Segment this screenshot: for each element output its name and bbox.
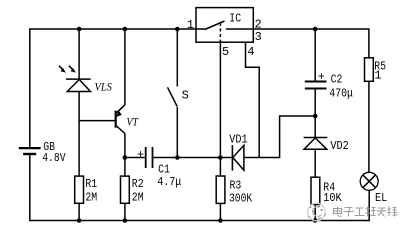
svg-text:+: + [318,70,325,84]
watermark logo [308,203,326,221]
svg-text:VD2: VD2 [330,139,348,153]
IC U1 box [196,8,253,43]
wire VD2 to R4 [314,149,316,177]
IC internal switch [196,21,253,42]
wire C1 right across S and R3 columns [153,157,231,159]
resistor R2 [121,176,130,203]
svg-text:2M: 2M [85,190,97,204]
node C1 right S [175,155,180,160]
wire C2 column top [314,29,316,81]
svg-text:470μ: 470μ [329,86,353,100]
node bottom R4 [313,218,318,223]
transistor VT [79,105,125,134]
wire R4 to bottom rail [314,204,316,220]
svg-text:4.8V: 4.8V [42,151,66,165]
node top VT [123,27,128,32]
capacitor C1 [146,147,153,168]
watermark text dianzi gongcheng zhuanji [334,207,398,217]
svg-text:VD1: VD1 [229,133,247,147]
resistor R1 [75,176,84,203]
svg-text:4: 4 [247,45,254,59]
wire VT collector down to C1 node and R2 [124,133,126,176]
wire R2 to bottom rail [124,203,126,220]
svg-text:IC: IC [229,11,241,25]
svg-text:R2: R2 [132,177,144,191]
wire R5 to lamp [368,81,370,172]
node C2 bottom [313,114,318,119]
svg-text:C2: C2 [331,73,343,87]
wire VD1 right riser to C2 node [244,116,315,158]
wire IC pin5 down to C1 wire [219,42,221,157]
wire top rail right [253,29,369,58]
node top VLS [77,27,82,32]
diode VD1 [232,145,244,171]
wire top rail left [30,29,196,147]
node bottom R2 [123,218,128,223]
node R3 top [218,155,223,160]
svg-text:EL: EL [375,191,387,205]
wire R1 to bottom rail [78,203,80,220]
svg-text:1: 1 [187,18,194,32]
svg-text:S: S [182,89,189,103]
wire R3 top and bottom stubs [219,158,221,221]
svg-text:1: 1 [374,68,381,82]
diode VD2 [304,138,328,150]
node bottom R1 [77,218,82,223]
node bottom R3 [218,218,223,223]
svg-text:4.7μ: 4.7μ [157,175,181,189]
wire VLS to base junction and down to R1 [78,92,80,177]
wire IC pin4 jog down [246,42,260,157]
resistor R4 [311,177,320,204]
resistor R3 [216,176,225,203]
svg-text:3: 3 [255,30,262,44]
wire VLS column top [78,29,80,79]
svg-text:10K: 10K [323,191,342,205]
resistor R5 [365,58,374,82]
svg-text:+: + [137,148,144,162]
svg-text:5: 5 [222,45,229,59]
node C1 left [123,155,128,160]
svg-text:300K: 300K [229,191,253,205]
svg-text:VT: VT [127,115,140,129]
battery GB [19,148,41,154]
wire C2 to VD2 [314,89,316,138]
svg-text:R1: R1 [85,177,97,191]
wire VT emitter to top rail [124,29,126,105]
svg-text:VLS: VLS [95,80,112,94]
node top S [175,27,180,32]
lamp EL [360,172,378,190]
wire bottom rail [30,155,369,220]
node top C2 [313,27,318,32]
capacitor C2 [305,82,327,89]
wire C1 left [125,157,145,159]
photodiode VLS [59,66,91,92]
svg-text:2M: 2M [132,190,144,204]
switch S [168,29,178,158]
